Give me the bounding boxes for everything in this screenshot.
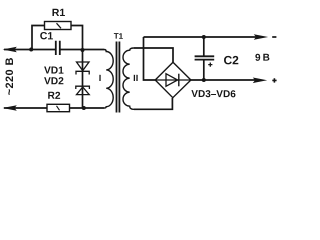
- svg-text:9: 9: [255, 53, 261, 64]
- svg-text:I: I: [99, 73, 102, 83]
- svg-text:VD1: VD1: [44, 66, 64, 77]
- svg-text:~220 В: ~220 В: [4, 57, 16, 95]
- svg-text:C2: C2: [223, 53, 239, 67]
- svg-text:VD2: VD2: [44, 76, 64, 87]
- svg-text:R2: R2: [47, 91, 60, 102]
- svg-text:В: В: [263, 53, 270, 64]
- svg-text:C1: C1: [40, 30, 54, 42]
- svg-text:T1: T1: [114, 32, 124, 41]
- svg-text:R1: R1: [52, 7, 66, 19]
- svg-text:II: II: [133, 73, 138, 83]
- svg-text:VD3–VD6: VD3–VD6: [191, 89, 236, 100]
